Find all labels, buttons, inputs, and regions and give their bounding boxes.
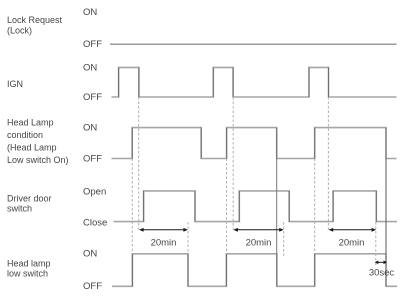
- signal label Head lamp low switch: [7, 259, 51, 279]
- svg-text:Driver door: Driver door: [7, 194, 52, 204]
- waveform Head Lamp condition: [112, 128, 397, 159]
- dashed guide: IGN off cycle 3 (x=328.4): [327, 97, 329, 230]
- svg-text:low switch: low switch: [7, 269, 48, 279]
- waveform Driver door switch: [114, 191, 398, 222]
- svg-text:ON: ON: [83, 249, 97, 260]
- dashed guide: lamp-on event cycle 3 (x=314.7): [314, 159, 316, 254]
- IGN pulse edges: [119, 67, 329, 97]
- svg-text:(Lock): (Lock): [7, 26, 32, 36]
- svg-text:ON: ON: [83, 63, 97, 74]
- svg-text:switch: switch: [7, 204, 32, 214]
- dashed guide: lamp-on event cycle 1 (x=132.3): [131, 159, 133, 254]
- svg-text:IGN: IGN: [7, 79, 23, 89]
- waveform Lock Request: flat OFF line: [110, 43, 397, 45]
- dimension arrow 20min cycle 2: [233, 228, 283, 232]
- svg-text:20min: 20min: [151, 238, 177, 249]
- signal label Driver door switch: [7, 194, 52, 214]
- Head lamp low switch edges: [132, 254, 386, 286]
- svg-text:ON: ON: [83, 123, 97, 134]
- waveform Head lamp low switch: [112, 254, 397, 286]
- solid connector: lamp-off event cycle 2 (x=276.7): [276, 159, 278, 254]
- dashed guide: door close / 20min point cycle 3 (x=375.8): [375, 222, 377, 266]
- svg-text:Lock Request: Lock Request: [7, 15, 63, 25]
- signal label Lock Request (Lock): [7, 15, 63, 36]
- signal label Head Lamp condition (Head Lamp Low switch On): [7, 118, 69, 166]
- dashed guide: IGN off cycle 2 (x=233.2): [232, 97, 234, 230]
- dimension arrow 20min cycle 1: [139, 228, 188, 232]
- svg-text:OFF: OFF: [83, 154, 102, 165]
- svg-text:OFF: OFF: [83, 39, 102, 50]
- svg-text:Open: Open: [83, 187, 106, 198]
- svg-text:ON: ON: [83, 7, 97, 18]
- dimension arrow 30sec: [375, 261, 387, 265]
- svg-text:Head Lamp: Head Lamp: [7, 118, 54, 128]
- svg-text:20min: 20min: [246, 238, 272, 249]
- svg-text:Close: Close: [83, 218, 107, 229]
- svg-text:OFF: OFF: [83, 281, 102, 292]
- svg-text:30sec: 30sec: [369, 268, 395, 279]
- Driver door switch edges: [144, 191, 377, 222]
- svg-text:Low switch On): Low switch On): [7, 155, 69, 165]
- svg-text:Head lamp: Head lamp: [7, 259, 51, 269]
- Head Lamp condition edges: [132, 128, 386, 159]
- solid connector: lamp-off event cycle 3 (x=386): [385, 159, 387, 254]
- svg-text:(Head Lamp: (Head Lamp: [7, 143, 57, 153]
- svg-text:OFF: OFF: [83, 92, 102, 103]
- svg-text:20min: 20min: [339, 238, 365, 249]
- dimension arrow 20min cycle 3: [329, 228, 377, 232]
- dashed guide: IGN off cycle 1 (x=138.7): [138, 97, 140, 230]
- waveform IGN: three pulses: [112, 67, 397, 97]
- dashed guide: 20min point cycle 2 (x=283.7): [283, 222, 285, 258]
- dashed guide: lamp-on event cycle 2 (x=226.5): [226, 159, 228, 254]
- dashed guide: 20min point cycle 1 (x=188): [187, 222, 189, 254]
- svg-text:condition: condition: [7, 130, 43, 140]
